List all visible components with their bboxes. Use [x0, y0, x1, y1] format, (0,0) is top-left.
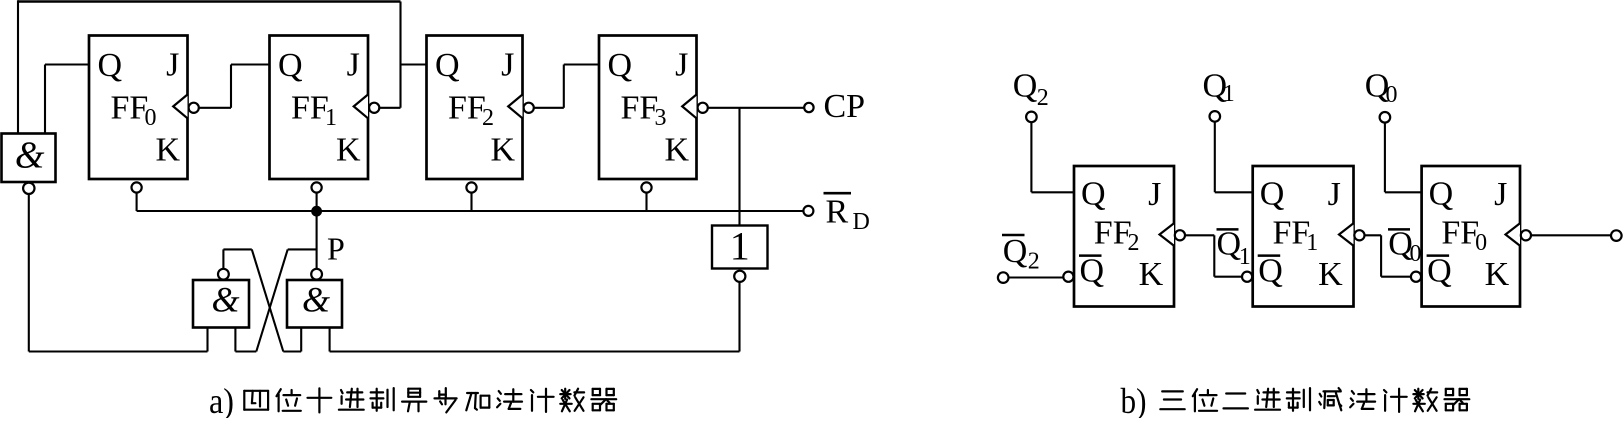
svg-text:1: 1 [1306, 230, 1318, 256]
svg-text:D: D [853, 209, 870, 235]
svg-text:2: 2 [1028, 249, 1040, 275]
svg-text:&: & [211, 280, 239, 320]
svg-text:FF: FF [621, 89, 659, 126]
svg-text:J: J [501, 46, 514, 83]
svg-text:J: J [1148, 176, 1161, 213]
svg-text:K: K [1139, 256, 1164, 293]
svg-text:J: J [1328, 176, 1341, 213]
svg-text:a): a) [209, 381, 234, 418]
svg-text:b): b) [1121, 381, 1147, 418]
svg-text:Q: Q [1003, 233, 1028, 270]
svg-text:0: 0 [145, 105, 157, 131]
svg-text:Q: Q [1081, 175, 1106, 212]
svg-text:Q: Q [1427, 252, 1452, 289]
svg-text:Q: Q [608, 47, 633, 84]
svg-text:Q: Q [1217, 226, 1242, 263]
svg-text:Q: Q [278, 47, 303, 84]
svg-text:K: K [155, 131, 180, 168]
svg-text:2: 2 [1128, 230, 1140, 256]
svg-text:Q: Q [1260, 175, 1285, 212]
svg-text:J: J [1494, 176, 1507, 213]
svg-text:3: 3 [655, 105, 667, 131]
svg-text:J: J [166, 46, 179, 83]
svg-text:1: 1 [325, 105, 337, 131]
svg-text:Q: Q [1013, 68, 1038, 105]
svg-text:1: 1 [1239, 244, 1251, 270]
svg-text:FF: FF [448, 89, 486, 126]
svg-text:0: 0 [1410, 241, 1422, 267]
svg-text:FF: FF [111, 89, 149, 126]
svg-text:FF: FF [1441, 215, 1479, 252]
svg-text:Q: Q [1080, 252, 1105, 289]
svg-text:1: 1 [730, 223, 750, 268]
svg-text:R: R [826, 193, 849, 230]
svg-text:FF: FF [291, 89, 329, 126]
svg-text:Q: Q [98, 47, 123, 84]
svg-text:&: & [15, 135, 45, 177]
svg-text:K: K [1318, 256, 1343, 293]
svg-text:Q: Q [435, 47, 460, 84]
svg-text:CP: CP [824, 88, 866, 125]
svg-text:0: 0 [1386, 82, 1398, 108]
svg-text:2: 2 [1037, 85, 1049, 111]
svg-text:K: K [1485, 256, 1510, 293]
svg-text:K: K [664, 131, 689, 168]
svg-text:0: 0 [1475, 230, 1487, 256]
svg-text:Q: Q [1429, 175, 1454, 212]
svg-text:J: J [675, 46, 688, 83]
svg-text:FF: FF [1273, 215, 1311, 252]
svg-text:2: 2 [482, 105, 494, 131]
svg-text:J: J [347, 46, 360, 83]
svg-text:&: & [302, 280, 330, 320]
svg-text:P: P [327, 231, 345, 267]
svg-text:K: K [490, 131, 515, 168]
svg-text:Q: Q [1258, 252, 1283, 289]
svg-text:K: K [336, 131, 361, 168]
svg-text:1: 1 [1223, 81, 1235, 107]
svg-text:FF: FF [1094, 215, 1132, 252]
